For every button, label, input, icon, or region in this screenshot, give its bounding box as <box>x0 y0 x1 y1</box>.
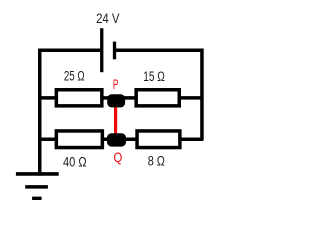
svg-text:40 Ω: 40 Ω <box>63 154 87 169</box>
svg-text:25 Ω: 25 Ω <box>64 69 85 84</box>
svg-text:Q: Q <box>114 150 123 165</box>
svg-text:8 Ω: 8 Ω <box>148 153 165 168</box>
svg-text:P: P <box>113 77 119 92</box>
svg-text:24 V: 24 V <box>96 11 120 27</box>
svg-text:15 Ω: 15 Ω <box>143 69 165 84</box>
